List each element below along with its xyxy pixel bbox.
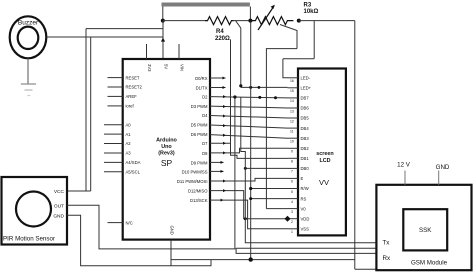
wire D6 to LCD DB3	[210, 135, 288, 139]
pin AREF	[108, 95, 123, 97]
LCD pin labels	[301, 76, 312, 232]
wire D10 stub	[210, 170, 224, 172]
wire VSS from D13	[224, 200, 288, 229]
Arduino top pin VIN	[178, 44, 180, 59]
svg-text:GND: GND	[170, 226, 175, 235]
svg-text:10kΩ: 10kΩ	[304, 9, 319, 15]
svg-text:V0: V0	[301, 206, 307, 211]
GSM 12V stub	[404, 171, 406, 185]
svg-text:1: 1	[291, 230, 293, 234]
power bus bar (gray)	[162, 3, 250, 7]
wire PIR OUT route	[67, 205, 235, 249]
svg-text:5V: 5V	[164, 64, 169, 69]
svg-text:3V3: 3V3	[147, 64, 152, 72]
svg-text:14: 14	[290, 99, 294, 103]
wire buzzer down to ground	[27, 58, 29, 84]
svg-text:9: 9	[291, 150, 293, 154]
wire R/W from bus drop	[251, 188, 288, 190]
wire PIR GND route	[67, 215, 211, 265]
svg-text:Buzzer: Buzzer	[18, 20, 39, 27]
wire VCC riser top horizontal to 5V column	[86, 28, 163, 30]
svg-text:VSS: VSS	[301, 227, 310, 232]
ground symbol under buzzer	[21, 83, 36, 85]
wire RS from bus drop	[251, 198, 288, 200]
svg-text:RS: RS	[301, 196, 307, 201]
node pot right terminal	[297, 19, 301, 23]
svg-text:VCC: VCC	[54, 189, 65, 195]
svg-text:AREF: AREF	[126, 94, 138, 99]
svg-text:220Ω: 220Ω	[215, 36, 230, 42]
wire ground line bottom	[171, 259, 355, 261]
wire LED- horizontal over LCD	[283, 58, 314, 60]
svg-text:D10 PWM/SS: D10 PWM/SS	[182, 169, 208, 174]
pin A2	[104, 143, 123, 145]
svg-text:D8: D8	[202, 151, 208, 156]
svg-text:R4: R4	[216, 29, 224, 35]
svg-text:D1/TX: D1/TX	[196, 85, 208, 90]
svg-text:D5 PWM: D5 PWM	[191, 123, 208, 128]
svg-text:DB6: DB6	[301, 106, 310, 111]
svg-text:A5/SCL: A5/SCL	[126, 170, 141, 175]
svg-text:3: 3	[291, 210, 293, 214]
wire buzzer net drop to VCC line	[90, 37, 92, 191]
svg-text:DB2: DB2	[301, 146, 310, 151]
svg-text:A4/SDA: A4/SDA	[126, 160, 141, 165]
wire LED+ horizontal to LCD pin15	[241, 86, 288, 88]
potentiometer R3	[250, 17, 293, 25]
wire D1/TX stub	[210, 87, 226, 89]
svg-text:D2: D2	[202, 95, 208, 100]
wire bottom jog to GSM lower-left	[355, 268, 377, 270]
svg-text:VV: VV	[319, 178, 329, 187]
wire OUT jog down to GSM Rx	[235, 249, 377, 254]
svg-text:GND: GND	[436, 164, 450, 171]
potentiometer R3 arrow	[258, 6, 274, 30]
buzzer BZ1 body	[10, 16, 47, 58]
node ground/rx junction	[249, 257, 253, 261]
pin A5/SCL	[104, 171, 123, 173]
wire DB0 from bus drop	[245, 167, 287, 169]
wire D13 stub	[210, 199, 224, 201]
svg-text:11: 11	[290, 129, 294, 133]
svg-text:DB7: DB7	[301, 96, 310, 101]
svg-text:12 V: 12 V	[397, 162, 411, 169]
svg-text:5: 5	[291, 190, 293, 194]
svg-text:A3: A3	[126, 151, 132, 156]
svg-text:10: 10	[290, 140, 294, 144]
svg-text:6: 6	[291, 180, 293, 184]
wire D11 jog to E	[210, 178, 288, 181]
svg-text:GSM Module: GSM Module	[411, 260, 448, 267]
svg-text:R/W: R/W	[301, 186, 309, 191]
svg-text:DB1: DB1	[301, 156, 310, 161]
svg-text:D3 PWM: D3 PWM	[191, 104, 208, 109]
buzzer inner ring	[18, 27, 39, 49]
pin N/C	[108, 222, 123, 224]
svg-text:(Rev3): (Rev3)	[158, 151, 175, 157]
wire D9 stub	[210, 161, 224, 163]
node pot left terminal	[248, 19, 252, 23]
svg-text:D0/RX: D0/RX	[195, 76, 208, 81]
PIR lens circle	[16, 192, 51, 227]
wire pot wiper diagonal	[280, 25, 297, 49]
svg-text:D4: D4	[202, 113, 208, 118]
svg-text:8: 8	[291, 160, 293, 164]
svg-text:RESET2: RESET2	[126, 85, 143, 90]
wire 5V pin column vertical	[162, 21, 164, 59]
wire D3 to LCD DB6	[210, 106, 288, 108]
svg-text:A0: A0	[126, 122, 132, 127]
junction arrows on data rows	[223, 95, 226, 192]
wire TX drop to GSM	[241, 97, 377, 243]
node VDD diamond	[285, 216, 291, 222]
svg-text:LED-: LED-	[301, 76, 311, 81]
svg-text:OUT: OUT	[54, 203, 64, 209]
svg-text:D12/MISO: D12/MISO	[188, 189, 208, 194]
wire right vertical down to ground line	[354, 21, 356, 270]
wire bus-right drop to pot left	[249, 7, 251, 21]
svg-text:D11 PWM/MOSI: D11 PWM/MOSI	[177, 179, 208, 184]
pin RESET2	[108, 86, 123, 88]
wire R4 branch down to LCD LED+	[236, 21, 241, 88]
svg-text:4: 4	[291, 200, 293, 204]
node LED+/R4 corner	[239, 84, 242, 87]
svg-text:VDD: VDD	[301, 216, 310, 221]
LCD pin numbers	[290, 79, 294, 234]
wire D0/RX stub	[210, 77, 226, 79]
svg-text:2: 2	[291, 220, 293, 224]
Arduino GND pin drop	[170, 240, 172, 266]
svg-text:DB4: DB4	[301, 126, 310, 131]
svg-text:Tx: Tx	[383, 240, 391, 247]
svg-text:DB0: DB0	[301, 166, 310, 171]
GSM module box	[376, 185, 471, 270]
svg-text:13: 13	[290, 109, 294, 113]
svg-text:12: 12	[290, 119, 294, 123]
wire D12 jog to RS	[210, 191, 288, 219]
arrow on 5V column	[161, 38, 165, 42]
wire pot right to far right vertical	[299, 20, 355, 22]
pin A3	[104, 152, 123, 154]
wire D8 jog to DB2	[210, 148, 288, 153]
svg-text:VIN: VIN	[180, 64, 185, 71]
pin A4/SDA	[104, 161, 123, 163]
wire PIR OUT drop vertical D2	[234, 97, 236, 249]
node dots on D2 row	[258, 96, 261, 99]
node 5V junction	[161, 19, 165, 23]
wire D7 jog to DB1	[210, 142, 231, 144]
PIR sensor box	[2, 177, 68, 245]
wire VDD crossing dot	[244, 217, 247, 220]
svg-text:Uno: Uno	[161, 144, 172, 150]
svg-text:SSK: SSK	[419, 227, 432, 234]
svg-text:D7: D7	[202, 141, 208, 146]
wire D5 to LCD DB4	[210, 125, 288, 128]
Arduino right pin labels	[177, 76, 208, 203]
svg-text:GND: GND	[53, 214, 64, 220]
Arduino left pins	[104, 78, 123, 223]
svg-text:SP: SP	[161, 158, 173, 168]
wire PIR VCC stub	[67, 190, 91, 192]
wire pot-left long drop to ground line	[250, 21, 252, 260]
svg-text:PIR Motion Sensor: PIR Motion Sensor	[3, 236, 55, 243]
wire LED- branch up tee	[313, 21, 315, 59]
svg-text:16: 16	[290, 79, 294, 83]
wire wiper route left	[266, 49, 297, 209]
svg-text:A2: A2	[126, 141, 132, 146]
GSM inner box SSK	[403, 209, 447, 250]
svg-text:7: 7	[291, 170, 293, 174]
pin RESET	[108, 77, 123, 79]
svg-text:N/C: N/C	[126, 220, 133, 225]
wire 5V node to R4	[163, 20, 208, 22]
pin A0	[104, 124, 123, 126]
Arduino U1 box	[123, 59, 210, 240]
svg-text:Arduino: Arduino	[156, 138, 177, 144]
LCD U2 box	[298, 69, 346, 236]
svg-text:DB5: DB5	[301, 116, 310, 121]
resistor R4	[205, 17, 234, 25]
LCD pins left	[288, 78, 299, 229]
wire OUT straight continuation to GSM	[236, 247, 377, 249]
svg-text:Rx: Rx	[383, 255, 391, 262]
svg-text:D9 PWM: D9 PWM	[191, 160, 208, 165]
svg-text:RESET: RESET	[126, 75, 140, 80]
svg-text:D13/SCK: D13/SCK	[190, 198, 208, 203]
pin ioref	[108, 105, 123, 107]
svg-text:LED+: LED+	[301, 86, 312, 91]
svg-text:E: E	[301, 176, 304, 181]
GSM GND stub	[438, 171, 440, 185]
wire VCC riser vertical	[85, 29, 87, 191]
svg-text:A1: A1	[126, 132, 132, 137]
svg-text:screen: screen	[316, 151, 333, 157]
svg-text:D6 PWM: D6 PWM	[191, 132, 208, 137]
svg-text:15: 15	[290, 89, 294, 93]
wire buzzer to 5V pin column	[46, 36, 163, 38]
wire LED- drop to LCD pin16	[283, 59, 288, 78]
svg-text:R3: R3	[304, 3, 312, 9]
wire D4 to LCD DB5	[210, 116, 288, 119]
wire D2 to LCD DB7	[210, 97, 288, 98]
svg-text:ioref: ioref	[126, 104, 135, 109]
wire R4 right to pot-left node	[234, 20, 251, 22]
wire bus-left drop to 5V node	[162, 7, 164, 21]
svg-text:DB3: DB3	[301, 136, 310, 141]
wire wiper to LCD V0	[266, 208, 287, 210]
Arduino top pin 3V3	[146, 44, 148, 59]
pin A1	[104, 133, 123, 135]
svg-text:LCD: LCD	[319, 158, 330, 164]
